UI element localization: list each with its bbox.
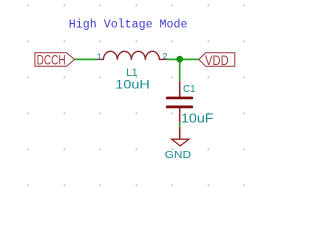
- svg-text:VDD: VDD: [205, 53, 229, 69]
- svg-text:C1: C1: [183, 84, 196, 95]
- svg-text:10uF: 10uF: [181, 111, 214, 125]
- svg-text:DCCH: DCCH: [37, 52, 66, 68]
- svg-text:High Voltage Mode: High Voltage Mode: [69, 19, 188, 32]
- svg-text:10uH: 10uH: [115, 77, 150, 91]
- svg-text:1: 1: [97, 53, 102, 63]
- svg-text:GND: GND: [165, 150, 192, 161]
- svg-text:2: 2: [162, 52, 167, 62]
